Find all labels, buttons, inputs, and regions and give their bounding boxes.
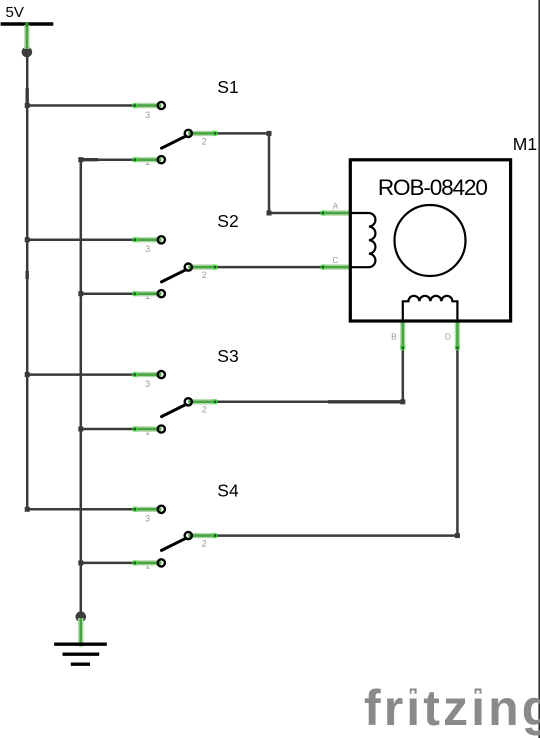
svg-text:C: C [332, 255, 338, 265]
svg-text:S2: S2 [217, 211, 238, 231]
svg-text:3: 3 [145, 110, 150, 120]
svg-text:fritzing: fritzing [364, 680, 540, 736]
svg-text:A: A [333, 201, 339, 211]
svg-text:5V: 5V [6, 4, 24, 21]
svg-text:3: 3 [145, 379, 150, 389]
svg-text:M1: M1 [513, 134, 537, 154]
svg-text:2: 2 [202, 539, 207, 549]
svg-text:ROB-08420: ROB-08420 [378, 175, 488, 200]
svg-text:B: B [391, 332, 397, 342]
svg-text:2: 2 [202, 136, 207, 146]
svg-text:S4: S4 [217, 481, 239, 501]
svg-text:2: 2 [202, 405, 207, 415]
svg-text:S3: S3 [217, 346, 238, 366]
svg-text:S1: S1 [217, 77, 238, 97]
svg-text:D: D [445, 332, 451, 342]
svg-text:2: 2 [202, 270, 207, 280]
svg-text:3: 3 [145, 514, 150, 524]
svg-text:3: 3 [145, 244, 150, 254]
